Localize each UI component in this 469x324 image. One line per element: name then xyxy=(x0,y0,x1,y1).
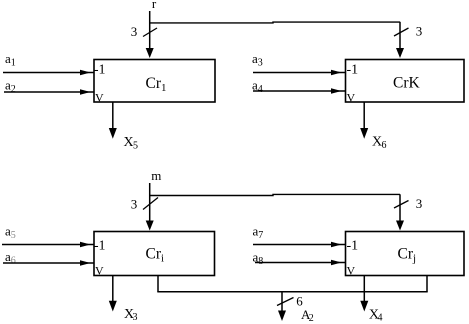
svg-text:3: 3 xyxy=(133,312,138,323)
wire a2 into Cr1 xyxy=(4,91,94,93)
svg-text:m: m xyxy=(151,168,161,183)
svg-text:-1: -1 xyxy=(94,63,106,78)
svg-text:V: V xyxy=(347,91,356,105)
wire a3 into CrK xyxy=(253,72,346,74)
wire m vertical into Cri xyxy=(149,183,151,221)
wire r horizontal to CrK branch xyxy=(150,21,400,24)
svg-text:V: V xyxy=(347,264,356,278)
wire X5 output of Cr1 xyxy=(112,102,114,129)
bus slash on Crj branch xyxy=(394,201,409,209)
register Crj box xyxy=(346,232,465,276)
bus slash on A2 drop xyxy=(277,298,294,306)
arrow into Cr1 top xyxy=(146,48,154,58)
wire A2 output drop xyxy=(281,292,283,311)
svg-text:-1: -1 xyxy=(347,239,359,254)
wire X6 output of CrK xyxy=(363,102,365,129)
svg-text:3: 3 xyxy=(416,24,423,39)
wire a1 into Cr1 xyxy=(3,72,94,74)
svg-text:5: 5 xyxy=(133,141,138,152)
arrow into Crj top xyxy=(396,221,404,231)
svg-text:-1: -1 xyxy=(94,239,106,254)
wire a8 into Crj xyxy=(255,262,346,264)
register Cri box xyxy=(94,232,215,276)
wire a7 into Crj xyxy=(253,244,346,246)
wire a5 into Cri xyxy=(2,244,94,246)
register Cr1 box xyxy=(94,60,215,103)
wire Crj bottom riser to A2 bus xyxy=(426,276,428,292)
svg-text:V: V xyxy=(95,264,104,278)
wire m branch vertical into Crj xyxy=(399,194,401,220)
wire m horizontal to Crj branch xyxy=(150,194,400,195)
svg-text:4: 4 xyxy=(378,313,383,324)
svg-text:3: 3 xyxy=(131,197,138,212)
wire Cri bottom riser to A2 bus xyxy=(157,276,159,292)
svg-text:2: 2 xyxy=(309,313,314,324)
wire r vertical into Cr1 xyxy=(149,11,151,49)
svg-text:r: r xyxy=(152,0,157,11)
wire r branch vertical into CrK xyxy=(399,22,401,49)
wire X3 output of Cri xyxy=(112,276,114,302)
svg-text:CrK: CrK xyxy=(393,75,421,92)
svg-text:6: 6 xyxy=(382,140,387,151)
bus slash on m line xyxy=(143,198,158,210)
wire X4 output of Crj xyxy=(363,276,365,302)
svg-text:V: V xyxy=(95,91,104,105)
wire a6 into Cri xyxy=(3,262,94,264)
wire a4 into CrK xyxy=(253,90,346,92)
arrow into Cri top xyxy=(146,221,154,231)
arrow into CrK top xyxy=(396,48,404,58)
bus slash on r line xyxy=(143,28,157,37)
svg-text:3: 3 xyxy=(416,196,423,211)
register CrK box xyxy=(346,60,465,103)
wire A2 bus horizontal xyxy=(157,291,427,293)
svg-text:3: 3 xyxy=(131,24,138,39)
bus slash on CrK branch xyxy=(394,28,409,36)
svg-text:-1: -1 xyxy=(347,63,359,78)
